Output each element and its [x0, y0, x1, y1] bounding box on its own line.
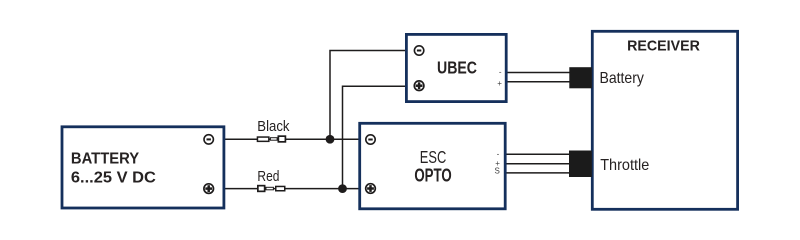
UBEC U1 box	[406, 34, 506, 101]
wire junction to UBEC minus	[330, 51, 408, 140]
svg-text:6...25 V DC: 6...25 V DC	[71, 168, 156, 186]
svg-text:BATTERY: BATTERY	[71, 150, 140, 168]
svg-text:-: -	[497, 150, 500, 159]
battery B1 box	[62, 127, 224, 208]
wire battery plus to ESC plus	[224, 188, 361, 190]
ESC plus terminal	[366, 184, 376, 194]
svg-text:ESC: ESC	[420, 148, 446, 168]
svg-text:Red: Red	[257, 168, 279, 185]
wire ESC plus to receiver throttle connector	[506, 163, 571, 165]
bullet connector pair on black wire	[257, 136, 285, 142]
ESC U2 box	[360, 123, 506, 209]
wire battery minus to ESC minus	[224, 138, 361, 140]
battery plus terminal	[204, 184, 214, 194]
ESC minus terminal	[366, 135, 375, 144]
wire ESC minus to receiver throttle connector	[506, 153, 571, 155]
svg-text:+: +	[497, 79, 502, 88]
wire junction to UBEC plus	[343, 86, 408, 188]
UBEC minus terminal	[414, 46, 423, 55]
battery minus terminal	[204, 135, 213, 144]
svg-text:-: -	[499, 67, 502, 76]
svg-text:Throttle: Throttle	[600, 157, 649, 175]
bullet connector pair on red wire	[258, 186, 285, 192]
receiver battery connector block	[569, 67, 592, 88]
receiver throttle connector block	[569, 151, 592, 178]
wire UBEC minus to receiver battery connector	[506, 72, 571, 74]
svg-text:UBEC: UBEC	[437, 58, 477, 78]
junction on red wire	[338, 184, 347, 193]
wire UBEC plus to receiver battery connector	[506, 81, 571, 83]
svg-text:RECEIVER: RECEIVER	[627, 38, 700, 54]
UBEC plus terminal	[414, 81, 424, 91]
svg-text:OPTO: OPTO	[414, 167, 451, 186]
svg-text:S: S	[495, 166, 500, 175]
svg-text:Battery: Battery	[600, 69, 645, 87]
svg-text:Black: Black	[257, 117, 290, 134]
wire ESC signal to receiver throttle connector	[506, 172, 571, 174]
junction on black wire	[326, 135, 335, 144]
receiver U3 box	[592, 31, 737, 209]
